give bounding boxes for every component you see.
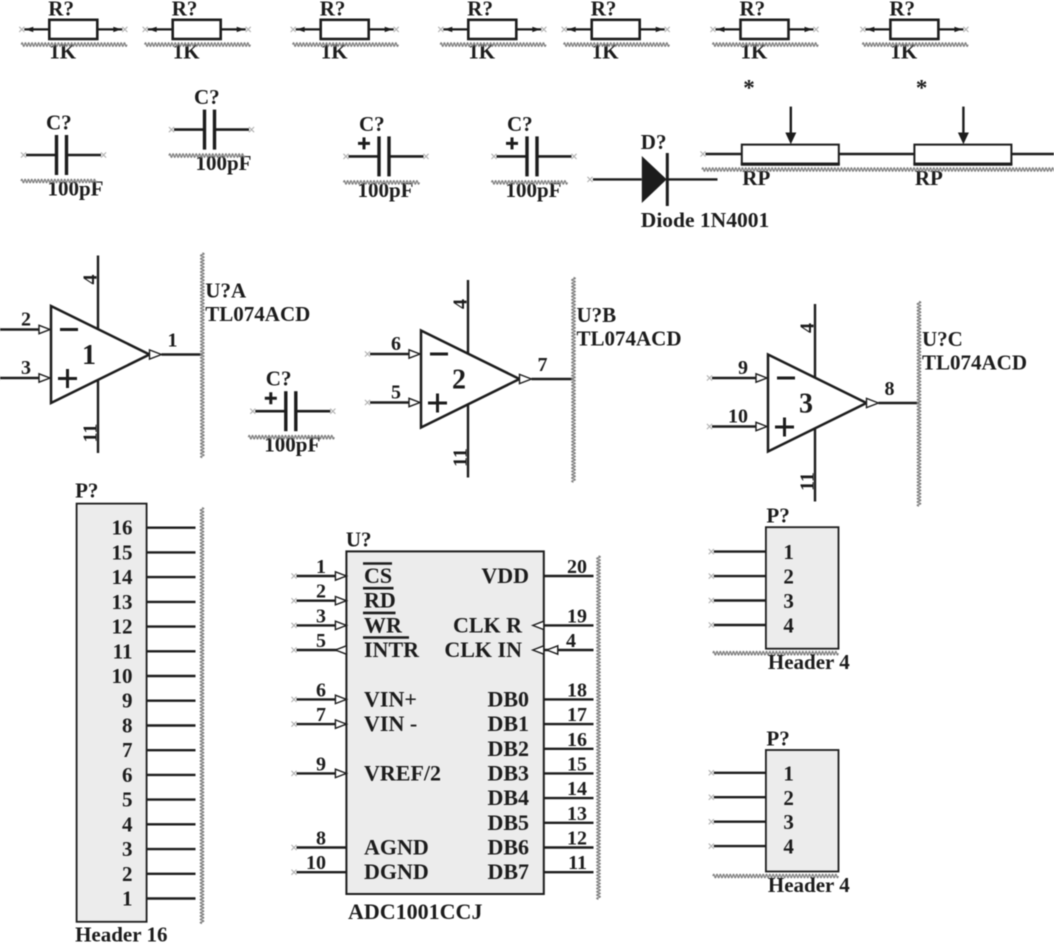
hatched net line right of U2 (597, 556, 601, 899)
pin 3 wire of P2 (714, 599, 766, 601)
svg-text:DB3: DB3 (487, 760, 529, 785)
svg-text:1: 1 (783, 540, 794, 564)
pin 8 wire of P1 (147, 724, 196, 726)
op-amp U1C (U?C TL074ACD) triangle body (768, 355, 867, 452)
input arrow pin 7 (U2) (335, 720, 346, 728)
overbar of INTR (U2) (363, 636, 409, 639)
resistor R6 (R?) (710, 20, 818, 39)
svg-text:9: 9 (122, 689, 133, 713)
input arrow pin 6 (409, 350, 420, 358)
output arrow pin 5 (U2) (335, 646, 346, 654)
svg-text:4: 4 (80, 275, 102, 285)
svg-text:CS: CS (364, 563, 392, 588)
potentiometer RP2 (RP) (913, 145, 1054, 165)
svg-text:C?: C? (507, 112, 533, 136)
input arrow pin 9 (756, 374, 767, 382)
pin 5 wire (left side U2) (297, 649, 347, 651)
svg-text:6: 6 (316, 679, 326, 701)
pin 9 wire of P1 (147, 700, 196, 702)
pin 16 wire of P1 (147, 527, 196, 529)
no-connect hatch under R1 (21, 43, 127, 47)
svg-text:1: 1 (122, 887, 133, 911)
svg-text:DB0: DB0 (487, 686, 529, 711)
svg-text:RP: RP (915, 166, 943, 190)
non-inverting input marker (+) of U1C (775, 418, 794, 437)
wiper arrow of RP2 (962, 107, 964, 134)
positive supply pin 4 wire of U1A (97, 256, 99, 330)
svg-text:6: 6 (391, 333, 401, 355)
negative supply pin 11 wire of U1A (97, 380, 99, 454)
pin 18 wire (right side U2) (544, 698, 594, 700)
svg-text:4: 4 (797, 323, 819, 333)
svg-text:10: 10 (728, 406, 748, 428)
svg-text:1K: 1K (468, 40, 496, 64)
input arrow pin 1 (U2) (335, 572, 346, 580)
pin 13 wire (right side U2) (544, 822, 594, 824)
resistor R7 (R?) (860, 20, 968, 39)
svg-text:2: 2 (122, 862, 133, 886)
svg-text:14: 14 (567, 778, 587, 800)
ADC U2 (U? ADC1001CCJ) body (346, 551, 543, 894)
pin 2 wire of P2 (714, 575, 766, 577)
overbar of CS (U2) (363, 562, 392, 565)
pin 12 wire (right side U2) (544, 846, 594, 848)
positive supply pin 4 wire of U1C (814, 304, 816, 378)
svg-text:6: 6 (122, 763, 133, 787)
hatched net line right of U1A (201, 253, 205, 458)
non-inverting input marker (+) of U1A (58, 369, 77, 388)
capacitor C2 (C?) (169, 110, 254, 150)
input arrow pin 9 (U2) (335, 769, 346, 777)
svg-text:DB4: DB4 (487, 785, 529, 810)
svg-text:CLK IN: CLK IN (444, 637, 522, 662)
svg-text:1K: 1K (173, 40, 201, 64)
svg-text:TL074ACD: TL074ACD (205, 302, 310, 326)
svg-text:VIN+: VIN+ (364, 686, 417, 711)
svg-text:TL074ACD: TL074ACD (577, 327, 682, 351)
input arrow pin 3 (U2) (335, 621, 346, 629)
potentiometer RP1 (RP) (706, 145, 915, 165)
svg-text:P?: P? (75, 479, 98, 503)
pin 4 wire (right side U2) (544, 649, 594, 651)
svg-text:R?: R? (172, 0, 198, 21)
svg-text:R?: R? (591, 0, 617, 21)
svg-text:8: 8 (885, 378, 895, 400)
svg-text:DB7: DB7 (487, 859, 529, 884)
svg-text:U?C: U?C (922, 327, 963, 351)
pin 13 wire of P1 (147, 601, 196, 603)
svg-text:1: 1 (316, 556, 326, 578)
svg-text:9: 9 (316, 753, 326, 775)
diode D1 (D?) 1N4001 (587, 153, 717, 206)
negative supply pin 11 wire of U1B (467, 404, 469, 478)
svg-text:16: 16 (112, 516, 133, 540)
pin 6 wire of P1 (147, 774, 196, 776)
op-amp U1A (U?A TL074ACD) triangle body (51, 306, 150, 403)
input arrow pin 4 at body (U2) (533, 646, 544, 654)
positive supply pin 4 wire of U1B (467, 280, 469, 354)
svg-text:DB1: DB1 (487, 711, 529, 736)
svg-text:17: 17 (567, 704, 587, 726)
wire: non-inverting input lead, pin 10 of U1C (712, 425, 757, 427)
pin 3 wire of P3 (714, 821, 766, 823)
inverting input marker (-) of U1B (430, 353, 448, 356)
svg-text:8: 8 (316, 828, 326, 850)
connector P2 (P? Header 4) body (766, 527, 839, 649)
svg-text:4: 4 (783, 614, 794, 638)
pin 20 wire (right side U2) (544, 575, 594, 577)
no-connect hatch under C4 (492, 181, 568, 185)
no-connect hatch under C1 (21, 179, 97, 183)
svg-text:C?: C? (359, 112, 385, 136)
svg-text:2: 2 (452, 365, 466, 396)
svg-text:Header 4: Header 4 (768, 650, 850, 674)
pin 2 wire (left side U2) (297, 600, 347, 602)
svg-text:Header 4: Header 4 (768, 873, 850, 897)
resistor R5 (R?) (562, 20, 670, 39)
no-connect hatch under P3 (713, 874, 838, 878)
svg-text:13: 13 (567, 803, 587, 825)
pin 7 wire (left side U2) (297, 723, 347, 725)
input arrow pin 2 (U2) (335, 597, 346, 605)
svg-text:3: 3 (783, 810, 794, 834)
svg-text:100pF: 100pF (506, 178, 562, 202)
pin 6 wire (left side U2) (297, 698, 347, 700)
hatched net line right of U1C (917, 302, 921, 507)
pin 11 wire (right side U2) (544, 871, 594, 873)
pin 15 wire (right side U2) (544, 772, 594, 774)
svg-text:DGND: DGND (364, 859, 429, 884)
svg-text:7: 7 (538, 354, 548, 376)
svg-text:7: 7 (122, 738, 133, 762)
wiper arrow of RP1 (790, 107, 792, 134)
pin 11 wire of P1 (147, 650, 196, 652)
resistor R1 (R?) (19, 20, 127, 39)
svg-text:*: * (916, 76, 928, 101)
capacitor C3 (C?) (343, 136, 428, 176)
svg-text:3: 3 (799, 389, 813, 420)
no-connect hatch under R4 (440, 43, 546, 47)
no-connect hatch under R3 (293, 43, 399, 47)
no-connect hatch under C3 (344, 181, 420, 185)
no-connect hatch under C5 (248, 435, 334, 439)
svg-text:20: 20 (567, 556, 587, 578)
second input arrow pin 4 (U2) (547, 646, 558, 654)
no-connect hatch under R5 (564, 43, 670, 47)
svg-text:R?: R? (889, 0, 915, 21)
op-amp U1B (U?B TL074ACD) triangle body (421, 331, 520, 428)
pin 1 wire of P3 (714, 772, 766, 774)
svg-text:15: 15 (112, 540, 133, 564)
wire: output lead pin 8 of U1C (879, 402, 920, 404)
svg-text:12: 12 (567, 828, 587, 850)
svg-text:C?: C? (194, 85, 220, 109)
svg-text:11: 11 (113, 639, 133, 663)
svg-text:3: 3 (21, 357, 31, 379)
svg-text:8: 8 (122, 714, 133, 738)
svg-text:1K: 1K (592, 40, 620, 64)
output arrow pin 1 of U1A (150, 350, 162, 359)
svg-text:1: 1 (783, 761, 794, 785)
svg-text:P?: P? (766, 504, 789, 528)
svg-text:5: 5 (391, 382, 401, 404)
svg-text:1K: 1K (741, 40, 769, 64)
pin 2 wire of P1 (147, 873, 196, 875)
svg-text:INTR: INTR (364, 637, 420, 662)
input arrow pin 3 (39, 374, 50, 382)
input arrow pin 19 at body (U2) (533, 621, 544, 629)
hatched net line right of U1B (572, 278, 576, 483)
resistor R4 (R?) (438, 20, 546, 39)
wire: non-inverting input lead, pin 5 of U1B (370, 401, 410, 403)
pin 8 wire (left side U2) (297, 846, 347, 848)
svg-text:10: 10 (112, 664, 133, 688)
pin 1 wire of P1 (147, 897, 196, 899)
svg-text:1K: 1K (49, 40, 77, 64)
pin 19 wire (right side U2) (544, 624, 594, 626)
svg-text:U?B: U?B (577, 303, 617, 327)
svg-text:10: 10 (306, 852, 326, 874)
svg-text:4: 4 (122, 812, 133, 836)
overbar of WR (U2) (363, 612, 396, 615)
svg-text:11: 11 (80, 424, 102, 443)
pin 16 wire (right side U2) (544, 748, 594, 750)
pin 4 wire of P3 (714, 845, 766, 847)
pin 10 wire of P1 (147, 675, 196, 677)
svg-text:TL074ACD: TL074ACD (922, 351, 1027, 375)
svg-text:5: 5 (122, 788, 133, 812)
no-connect hatch under R6 (713, 43, 819, 47)
pin 1 wire of P2 (714, 550, 766, 552)
svg-text:Diode 1N4001: Diode 1N4001 (641, 208, 769, 232)
svg-text:4: 4 (450, 299, 472, 309)
svg-text:P?: P? (766, 727, 789, 751)
svg-text:4: 4 (566, 630, 576, 652)
svg-text:DB5: DB5 (487, 810, 529, 835)
wire: inverting input lead, pin 2 of U1A (0, 328, 40, 330)
svg-text:R?: R? (320, 0, 346, 21)
pin 15 wire of P1 (147, 551, 196, 553)
svg-text:100pF: 100pF (358, 178, 414, 202)
svg-text:D?: D? (641, 130, 667, 154)
svg-text:3: 3 (316, 605, 326, 627)
non-inverting input marker (+) of U1B (428, 394, 447, 413)
svg-text:3: 3 (122, 837, 133, 861)
capacitor C4 (C?) (491, 136, 576, 176)
svg-text:2: 2 (783, 565, 794, 589)
pin 10 wire (left side U2) (297, 871, 347, 873)
pin 14 wire of P1 (147, 576, 196, 578)
pin 17 wire (right side U2) (544, 723, 594, 725)
svg-text:DB6: DB6 (487, 835, 529, 860)
pin 4 wire of P2 (714, 624, 766, 626)
connector P3 (P? Header 4) body (766, 750, 839, 872)
svg-text:2: 2 (21, 309, 31, 331)
svg-text:AGND: AGND (364, 835, 429, 860)
input arrow pin 6 (U2) (335, 695, 346, 703)
svg-text:Header 16: Header 16 (75, 923, 167, 943)
svg-text:*: * (743, 76, 755, 101)
wire: output lead pin 1 of U1A (162, 353, 203, 355)
resistor R3 (R?) (291, 20, 399, 39)
svg-text:R?: R? (740, 0, 766, 21)
wire: output lead pin 7 of U1B (532, 378, 574, 380)
svg-text:16: 16 (567, 729, 587, 751)
svg-text:C?: C? (266, 367, 292, 391)
svg-text:C?: C? (46, 111, 72, 135)
svg-text:19: 19 (567, 605, 587, 627)
inverting input marker (-) of U1C (777, 377, 795, 380)
svg-text:2: 2 (783, 786, 794, 810)
svg-text:R?: R? (48, 0, 74, 21)
svg-text:VIN -: VIN - (364, 711, 417, 736)
wire: inverting input lead, pin 6 of U1B (370, 353, 410, 355)
svg-text:11: 11 (797, 472, 819, 491)
output arrow pin 7 of U1B (520, 374, 532, 383)
no-connect hatch under R7 (862, 43, 968, 47)
pin 3 wire of P1 (147, 848, 196, 850)
svg-text:18: 18 (567, 679, 587, 701)
svg-text:CLK R: CLK R (453, 612, 523, 637)
svg-text:11: 11 (450, 448, 472, 467)
pin 12 wire of P1 (147, 625, 196, 627)
svg-text:1K: 1K (321, 40, 349, 64)
negative supply pin 11 wire of U1C (814, 428, 816, 502)
svg-text:ADC1001CCJ: ADC1001CCJ (348, 899, 482, 924)
capacitor C1 (C?) (21, 135, 106, 175)
connector P1 (P? Header 16) body (77, 504, 147, 922)
input arrow pin 2 (39, 325, 50, 333)
wire: non-inverting input lead, pin 3 of U1A (0, 377, 40, 379)
output arrow pin 8 of U1C (867, 398, 879, 407)
svg-text:R?: R? (467, 0, 493, 21)
no-connect hatch under R2 (145, 43, 251, 47)
svg-text:15: 15 (567, 753, 587, 775)
overbar of RD (U2) (363, 587, 394, 590)
svg-text:VREF/2: VREF/2 (364, 760, 441, 785)
no-connect hatch under P2 (713, 651, 838, 655)
pin 7 wire of P1 (147, 749, 196, 751)
pin 4 wire of P1 (147, 823, 196, 825)
svg-text:5: 5 (316, 630, 326, 652)
svg-text:U?A: U?A (205, 279, 247, 303)
pin 2 wire of P3 (714, 796, 766, 798)
svg-text:12: 12 (112, 615, 133, 639)
input arrow pin 10 (756, 422, 767, 430)
svg-text:RD: RD (364, 588, 396, 613)
svg-text:13: 13 (112, 590, 133, 614)
svg-text:1: 1 (168, 330, 178, 352)
inverting input marker (-) of U1A (60, 328, 78, 331)
svg-text:4: 4 (783, 835, 794, 859)
pin 9 wire (left side U2) (297, 772, 347, 774)
pin 3 wire (left side U2) (297, 624, 347, 626)
svg-text:9: 9 (738, 357, 748, 379)
svg-text:U?: U? (346, 528, 372, 552)
pin 14 wire (right side U2) (544, 797, 594, 799)
input arrow pin 5 (409, 398, 420, 406)
svg-text:11: 11 (568, 852, 587, 874)
svg-text:7: 7 (316, 704, 326, 726)
hatched net line right of P1 (200, 508, 204, 924)
svg-text:2: 2 (316, 581, 326, 603)
capacitor C5 (C?) (250, 391, 335, 431)
svg-text:1K: 1K (890, 40, 918, 64)
no-connect hatch under RP1 and RP2 (702, 168, 1054, 172)
svg-text:VDD: VDD (481, 563, 529, 588)
svg-text:3: 3 (783, 589, 794, 613)
resistor R2 (R?) (143, 20, 251, 39)
svg-text:WR: WR (364, 612, 403, 637)
svg-text:14: 14 (112, 565, 134, 589)
no-connect hatch under C2 (169, 154, 245, 158)
pin 5 wire of P1 (147, 798, 196, 800)
wire: inverting input lead, pin 9 of U1C (712, 377, 757, 379)
svg-text:1: 1 (82, 340, 96, 371)
svg-text:DB2: DB2 (487, 736, 529, 761)
pin 1 wire (left side U2) (297, 575, 347, 577)
